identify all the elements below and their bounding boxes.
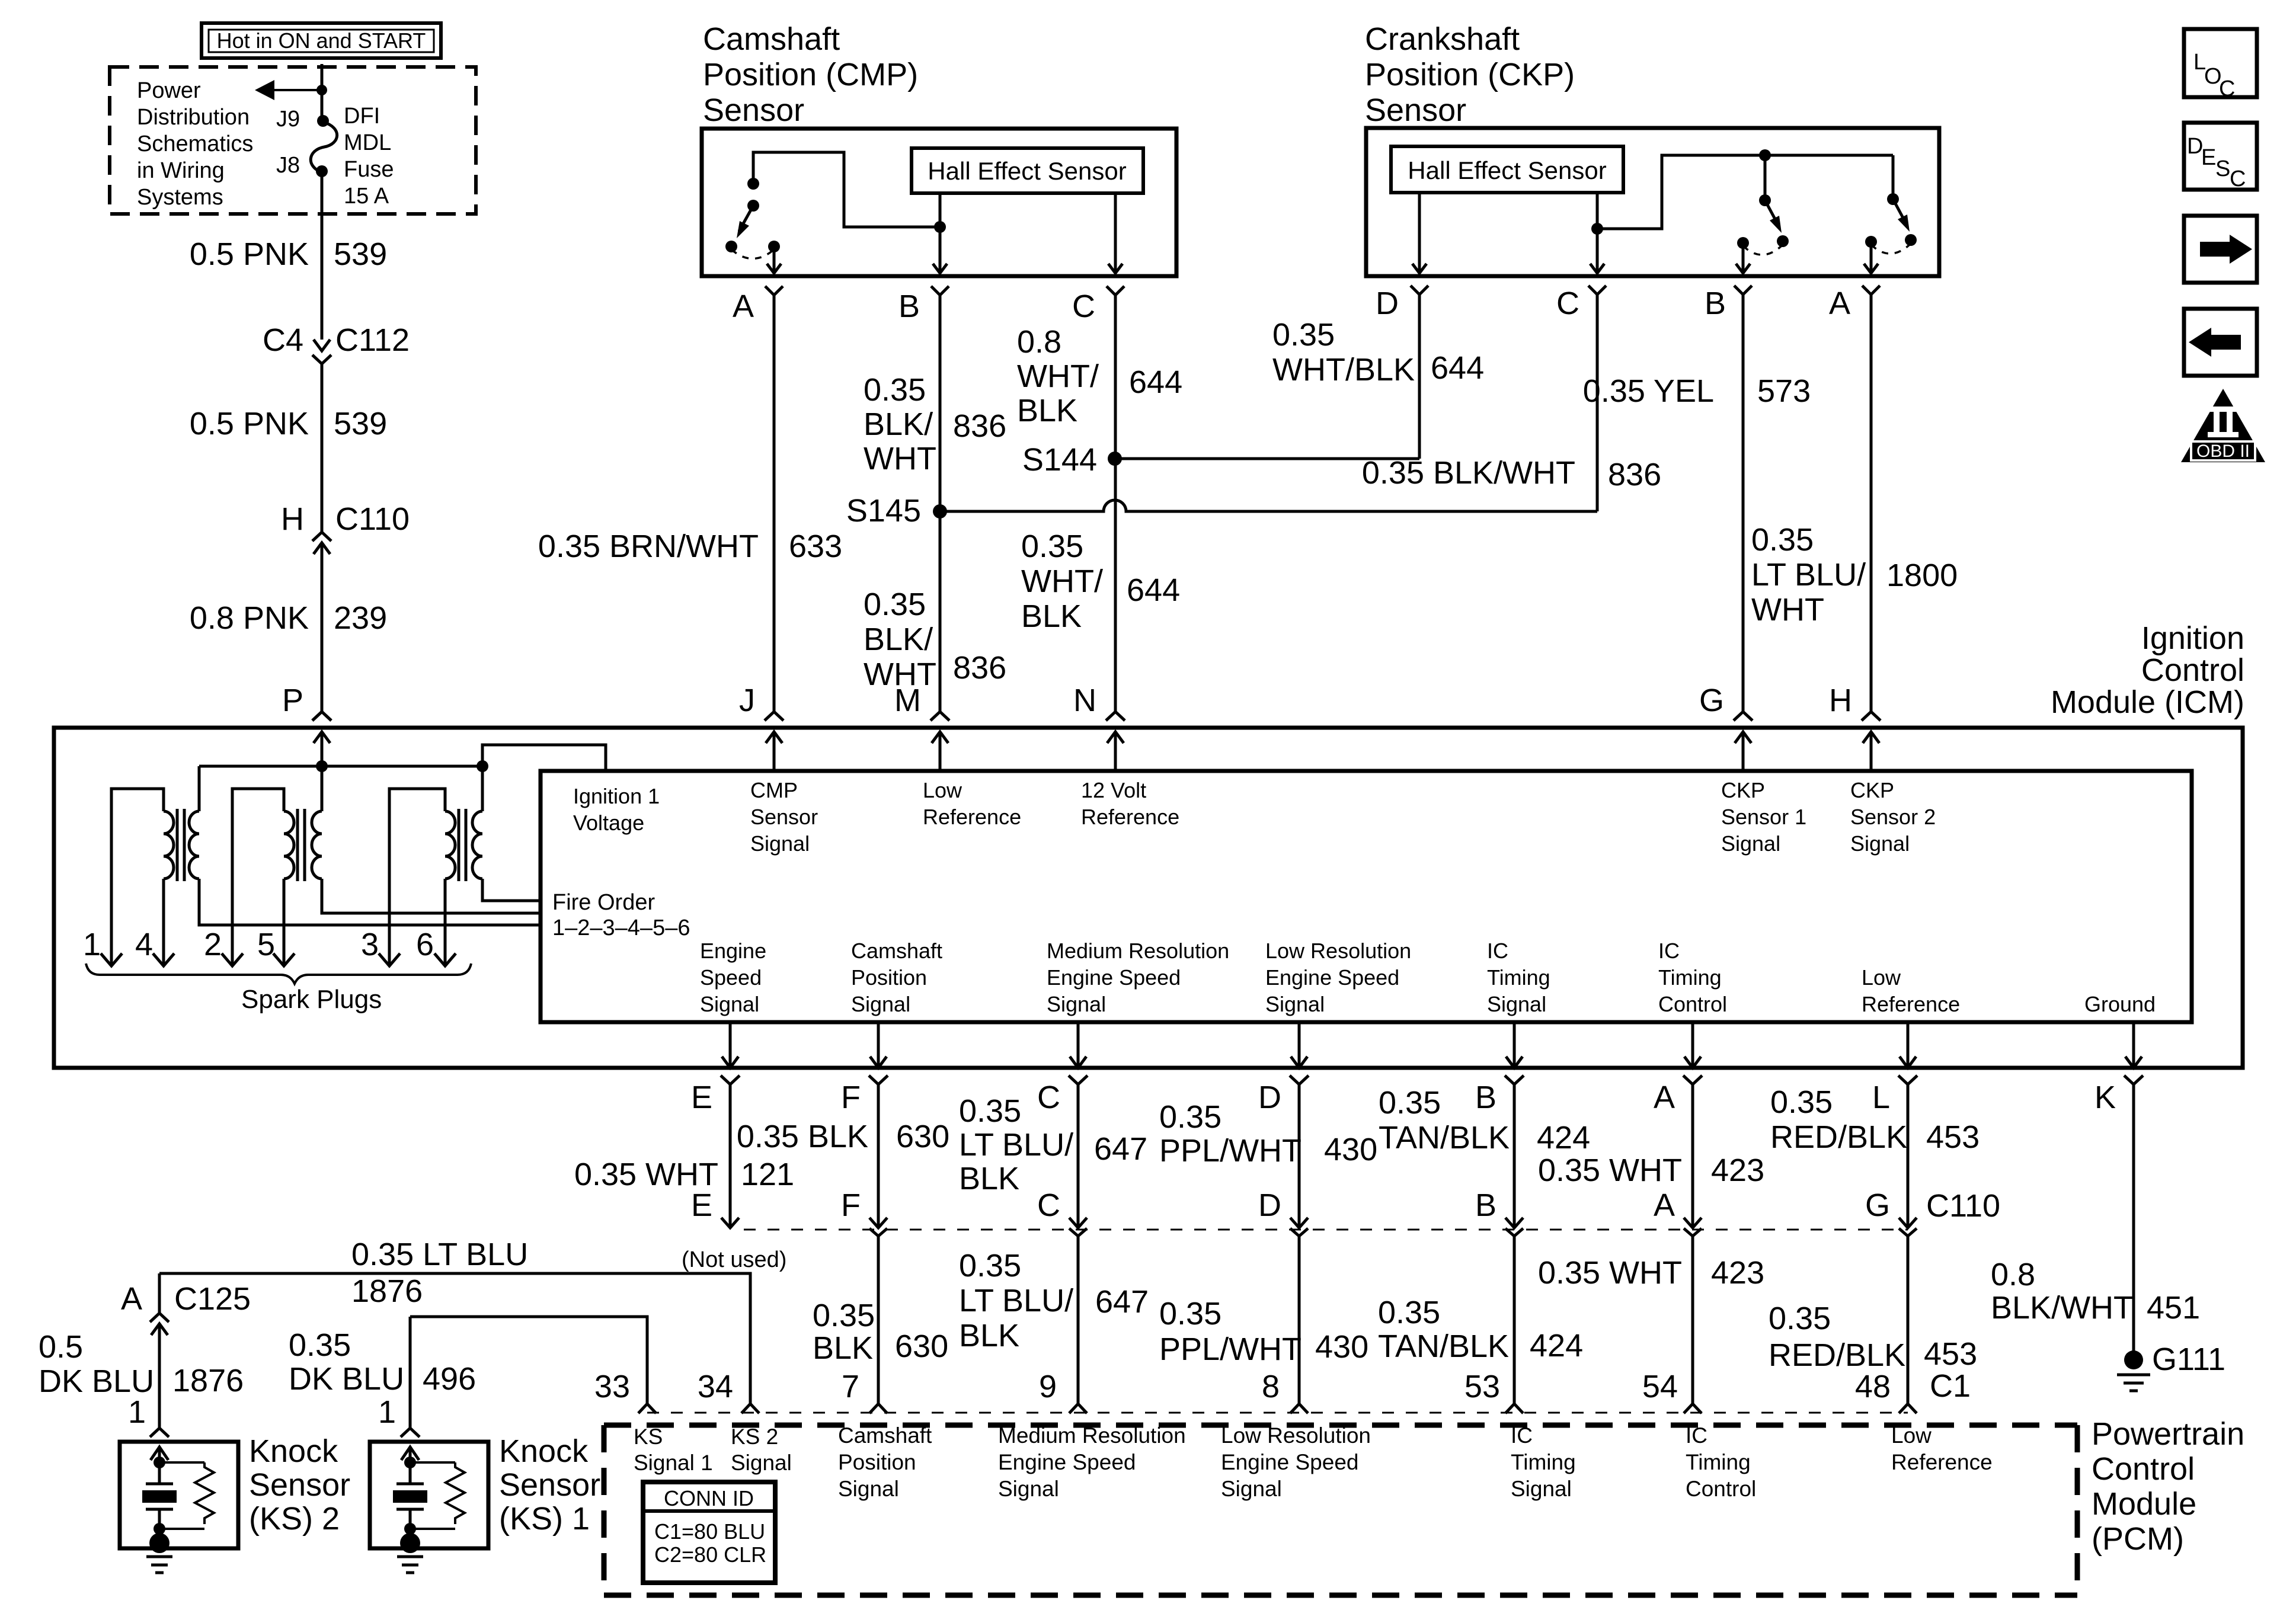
svg-text:C: C [1072,289,1095,324]
svg-text:633: 633 [789,529,842,564]
svg-text:OBD II: OBD II [2196,441,2250,461]
svg-text:G: G [1865,1188,1890,1223]
svg-text:A: A [733,289,754,324]
svg-text:Signal: Signal [1265,992,1325,1016]
svg-text:Sensor: Sensor [499,1467,600,1503]
svg-text:836: 836 [953,650,1006,686]
svg-text:0.35 WHT: 0.35 WHT [1538,1255,1682,1291]
svg-text:Timing: Timing [1686,1450,1751,1474]
svg-text:CKP: CKP [1721,778,1765,802]
svg-text:647: 647 [1095,1284,1149,1320]
svg-text:Hall Effect Sensor: Hall Effect Sensor [1408,156,1606,184]
svg-text:0.5 PNK: 0.5 PNK [190,406,309,441]
svg-text:453: 453 [1924,1336,1977,1372]
svg-text:644: 644 [1431,350,1484,386]
svg-text:0.5 PNK: 0.5 PNK [190,236,309,272]
svg-text:Crankshaft: Crankshaft [1365,21,1520,57]
svg-text:P: P [282,683,303,718]
svg-text:496: 496 [423,1361,476,1397]
svg-text:Signal: Signal [1047,992,1106,1016]
svg-text:Control: Control [2141,652,2244,688]
svg-text:BLK: BLK [1021,598,1082,634]
svg-text:Medium Resolution: Medium Resolution [1047,939,1229,963]
svg-text:TAN/BLK: TAN/BLK [1378,1329,1509,1364]
svg-text:C: C [1556,286,1579,321]
svg-text:A: A [121,1281,142,1317]
svg-text:IC: IC [1686,1423,1707,1448]
svg-text:Sensor 1: Sensor 1 [1721,805,1806,829]
svg-text:DFI: DFI [344,104,380,129]
svg-text:KS 2: KS 2 [731,1425,778,1449]
svg-text:4: 4 [135,927,153,962]
svg-text:Signal 1: Signal 1 [634,1451,713,1475]
svg-text:7: 7 [842,1369,859,1404]
svg-text:12 Volt: 12 Volt [1081,778,1146,802]
svg-text:G111: G111 [2152,1342,2225,1377]
svg-text:Sensor 2: Sensor 2 [1850,805,1936,829]
svg-text:644: 644 [1127,572,1180,608]
svg-text:WHT/: WHT/ [1017,359,1099,394]
svg-text:BLK/: BLK/ [864,406,933,442]
svg-text:H: H [281,501,304,537]
svg-text:424: 424 [1530,1328,1583,1363]
svg-text:Sensor: Sensor [1365,92,1466,128]
svg-text:Camshaft: Camshaft [851,939,942,963]
svg-text:Control: Control [1658,992,1727,1016]
svg-text:Schematics: Schematics [137,132,253,156]
svg-text:Camshaft: Camshaft [838,1423,932,1448]
svg-text:0.35: 0.35 [1272,317,1335,353]
svg-text:Reference: Reference [1081,805,1179,829]
svg-text:(KS) 2: (KS) 2 [249,1501,340,1537]
svg-text:0.35: 0.35 [1159,1296,1221,1331]
svg-text:0.35: 0.35 [1378,1295,1440,1330]
svg-text:0.35: 0.35 [1751,522,1814,558]
svg-text:C125: C125 [174,1281,251,1317]
svg-text:B: B [1705,286,1726,321]
svg-text:RED/BLK: RED/BLK [1769,1337,1905,1373]
svg-text:Ground: Ground [2084,992,2156,1016]
svg-text:Sensor: Sensor [249,1467,350,1503]
svg-text:0.35 BLK: 0.35 BLK [737,1119,868,1154]
svg-text:0.35: 0.35 [1159,1099,1221,1135]
svg-text:Ignition 1: Ignition 1 [573,784,660,808]
svg-text:0.8 PNK: 0.8 PNK [190,600,309,636]
svg-text:430: 430 [1315,1329,1368,1365]
svg-text:53: 53 [1464,1369,1500,1404]
svg-text:LT BLU/: LT BLU/ [1751,557,1866,593]
svg-text:BLK: BLK [959,1161,1019,1196]
svg-text:647: 647 [1094,1131,1147,1167]
svg-text:33: 33 [594,1369,630,1404]
svg-text:0.35 WHT: 0.35 WHT [1538,1153,1682,1188]
svg-text:A: A [1654,1080,1675,1115]
svg-text:630: 630 [896,1119,949,1154]
svg-text:Voltage: Voltage [573,811,644,835]
svg-text:836: 836 [1608,457,1661,492]
svg-text:Reference: Reference [1862,992,1960,1016]
svg-text:Signal: Signal [838,1477,899,1501]
svg-text:C: C [1037,1080,1060,1115]
svg-text:0.8: 0.8 [1991,1257,2035,1292]
svg-text:BLK/: BLK/ [864,622,933,657]
svg-text:BLK: BLK [959,1318,1019,1353]
svg-text:451: 451 [2147,1290,2200,1326]
svg-text:Signal: Signal [731,1451,792,1475]
svg-text:1: 1 [378,1394,396,1430]
svg-text:1–2–3–4–5–6: 1–2–3–4–5–6 [552,916,690,940]
svg-text:IC: IC [1658,939,1680,963]
svg-text:D: D [1258,1188,1281,1223]
svg-text:WHT: WHT [864,441,936,476]
svg-text:J: J [739,683,755,718]
svg-text:Ignition: Ignition [2141,620,2244,656]
svg-text:0.35: 0.35 [1769,1301,1831,1336]
svg-text:Signal: Signal [1850,831,1910,856]
svg-text:0.35: 0.35 [1021,529,1083,564]
svg-text:Module (ICM): Module (ICM) [2051,684,2244,720]
svg-text:F: F [841,1080,861,1115]
svg-text:IC: IC [1487,939,1508,963]
svg-text:C2=80 CLR: C2=80 CLR [654,1542,766,1567]
svg-text:J9: J9 [276,107,300,132]
svg-text:Reference: Reference [1891,1450,1993,1474]
svg-text:E: E [691,1188,712,1223]
svg-text:2: 2 [204,927,222,962]
svg-text:H: H [1829,683,1852,718]
svg-text:Engine Speed: Engine Speed [1221,1450,1358,1474]
svg-text:0.35: 0.35 [864,372,926,408]
svg-text:BLK: BLK [1017,393,1077,428]
svg-text:Position (CMP): Position (CMP) [703,57,918,92]
svg-text:239: 239 [334,600,387,636]
svg-text:1: 1 [128,1394,146,1430]
svg-text:3: 3 [361,927,379,962]
svg-text:430: 430 [1324,1132,1377,1167]
svg-text:S144: S144 [1022,442,1097,478]
svg-text:Low Resolution: Low Resolution [1265,939,1411,963]
svg-text:8: 8 [1262,1369,1280,1404]
svg-text:15 A: 15 A [344,184,389,209]
svg-text:Timing: Timing [1511,1450,1576,1474]
svg-text:Powertrain: Powertrain [2092,1416,2244,1452]
svg-text:B: B [1475,1080,1496,1115]
svg-text:WHT/: WHT/ [1021,564,1103,599]
svg-text:34: 34 [698,1369,733,1404]
svg-text:S: S [2215,156,2230,181]
svg-text:0.35 LT BLU: 0.35 LT BLU [351,1237,528,1272]
svg-text:0.35 WHT: 0.35 WHT [574,1157,718,1192]
svg-text:1876: 1876 [172,1363,244,1398]
svg-text:C110: C110 [1926,1188,2000,1224]
svg-text:423: 423 [1711,1153,1764,1188]
svg-text:0.35 YEL: 0.35 YEL [1583,373,1714,409]
svg-text:A: A [1654,1188,1675,1223]
svg-text:Position: Position [838,1450,916,1474]
svg-text:DK BLU: DK BLU [289,1361,404,1397]
svg-text:836: 836 [953,408,1006,444]
svg-text:Sensor: Sensor [750,805,818,829]
svg-text:Low: Low [923,778,962,802]
svg-text:0.35: 0.35 [813,1298,875,1333]
svg-text:Timing: Timing [1487,965,1550,990]
svg-text:RED/BLK: RED/BLK [1770,1119,1907,1155]
svg-text:D: D [1376,286,1399,321]
svg-text:Signal: Signal [1487,992,1546,1016]
svg-text:0.35: 0.35 [959,1093,1021,1129]
svg-text:C: C [2219,76,2235,101]
svg-text:Position (CKP): Position (CKP) [1365,57,1575,92]
svg-text:L: L [1872,1080,1890,1115]
svg-text:630: 630 [895,1329,948,1364]
svg-text:Systems: Systems [137,185,223,210]
svg-text:0.35: 0.35 [959,1248,1021,1283]
svg-text:CMP: CMP [750,778,798,802]
svg-text:Signal: Signal [1221,1477,1282,1501]
svg-text:F: F [841,1188,861,1223]
svg-text:Engine Speed: Engine Speed [1265,965,1399,990]
svg-text:453: 453 [1926,1119,1980,1155]
svg-text:Hot in ON and START: Hot in ON and START [217,28,426,53]
svg-text:Engine: Engine [700,939,766,963]
svg-text:Low: Low [1891,1423,1932,1448]
svg-text:A: A [1829,286,1850,321]
svg-text:1876: 1876 [351,1273,423,1309]
svg-text:(Not used): (Not used) [682,1247,786,1272]
svg-text:in Wiring: in Wiring [137,158,225,183]
svg-text:Module: Module [2092,1486,2196,1522]
svg-text:DK BLU: DK BLU [39,1363,154,1399]
svg-text:424: 424 [1537,1120,1590,1156]
svg-text:CKP: CKP [1850,778,1894,802]
svg-text:Signal: Signal [1721,831,1780,856]
svg-text:C112: C112 [335,322,410,358]
svg-text:48: 48 [1855,1369,1891,1404]
svg-text:5: 5 [257,927,275,962]
svg-text:N: N [1073,683,1096,718]
svg-text:S145: S145 [846,493,921,529]
svg-text:Distribution: Distribution [137,105,250,130]
svg-text:WHT/BLK: WHT/BLK [1272,352,1415,388]
svg-text:Signal: Signal [750,831,810,856]
svg-text:C: C [2230,167,2246,191]
svg-text:C4: C4 [263,322,303,358]
svg-text:G: G [1699,683,1724,718]
svg-text:B: B [898,289,920,324]
svg-text:539: 539 [334,406,387,441]
svg-text:PPL/WHT: PPL/WHT [1159,1331,1302,1367]
svg-text:0.35 BLK/WHT: 0.35 BLK/WHT [1362,455,1575,491]
svg-text:Signal: Signal [700,992,759,1016]
svg-text:Fire Order: Fire Order [552,890,655,915]
svg-text:C1=80 BLU: C1=80 BLU [654,1519,765,1544]
svg-text:Reference: Reference [923,805,1021,829]
svg-text:BLK/WHT: BLK/WHT [1991,1290,2133,1326]
svg-text:Timing: Timing [1658,965,1722,990]
svg-text:E: E [2201,145,2216,170]
svg-text:BLK: BLK [813,1330,873,1366]
svg-text:KS: KS [634,1425,663,1449]
svg-text:Knock: Knock [249,1433,338,1469]
svg-text:(KS) 1: (KS) 1 [499,1501,590,1537]
svg-text:LT BLU/: LT BLU/ [959,1283,1073,1318]
svg-text:423: 423 [1711,1255,1764,1291]
svg-text:0.8: 0.8 [1017,324,1061,360]
svg-text:C110: C110 [335,501,410,537]
svg-text:Spark Plugs: Spark Plugs [241,985,382,1014]
svg-text:Low: Low [1862,965,1901,990]
svg-text:Camshaft: Camshaft [703,21,840,57]
svg-text:644: 644 [1129,364,1182,400]
svg-text:LT BLU/: LT BLU/ [959,1127,1073,1163]
svg-text:0.35 BRN/WHT: 0.35 BRN/WHT [538,529,759,564]
svg-text:B: B [1475,1188,1496,1223]
svg-text:Fuse: Fuse [344,157,394,182]
svg-text:54: 54 [1642,1369,1678,1404]
svg-text:J8: J8 [276,153,300,178]
svg-text:Engine Speed: Engine Speed [998,1450,1136,1474]
svg-text:C: C [1037,1188,1060,1223]
svg-text:D: D [1258,1080,1281,1115]
svg-text:Medium Resolution: Medium Resolution [998,1423,1186,1448]
svg-text:Signal: Signal [998,1477,1059,1501]
svg-text:Signal: Signal [1511,1477,1572,1501]
svg-text:9: 9 [1039,1369,1057,1404]
svg-text:0.35: 0.35 [289,1327,351,1363]
svg-text:121: 121 [741,1157,794,1192]
svg-text:TAN/BLK: TAN/BLK [1379,1120,1510,1156]
svg-text:6: 6 [416,927,434,962]
svg-text:Control: Control [2092,1451,2195,1487]
svg-text:C1: C1 [1930,1368,1971,1404]
svg-text:WHT: WHT [1751,592,1824,628]
svg-text:539: 539 [334,236,387,272]
svg-text:Sensor: Sensor [703,92,804,128]
svg-text:1: 1 [83,927,101,962]
svg-text:Control: Control [1686,1477,1756,1501]
svg-text:K: K [2094,1080,2116,1115]
svg-text:573: 573 [1757,373,1811,409]
svg-text:0.35: 0.35 [864,587,926,622]
svg-text:Speed: Speed [700,965,762,990]
svg-text:Engine Speed: Engine Speed [1047,965,1181,990]
svg-text:PPL/WHT: PPL/WHT [1159,1133,1302,1169]
svg-text:IC: IC [1511,1423,1533,1448]
svg-text:Low Resolution: Low Resolution [1221,1423,1371,1448]
svg-text:0.35: 0.35 [1379,1085,1441,1121]
svg-text:M: M [894,683,921,718]
svg-text:0.5: 0.5 [39,1329,83,1365]
svg-text:(PCM): (PCM) [2092,1521,2184,1557]
svg-text:CONN ID: CONN ID [664,1486,754,1510]
svg-text:0.35: 0.35 [1770,1084,1833,1120]
svg-text:Hall Effect Sensor: Hall Effect Sensor [928,157,1126,185]
svg-text:Position: Position [851,965,927,990]
svg-text:Signal: Signal [851,992,910,1016]
svg-text:1800: 1800 [1886,558,1958,593]
svg-text:MDL: MDL [344,130,391,155]
svg-text:Knock: Knock [499,1433,589,1469]
svg-text:Power: Power [137,78,201,103]
svg-text:E: E [691,1080,712,1115]
